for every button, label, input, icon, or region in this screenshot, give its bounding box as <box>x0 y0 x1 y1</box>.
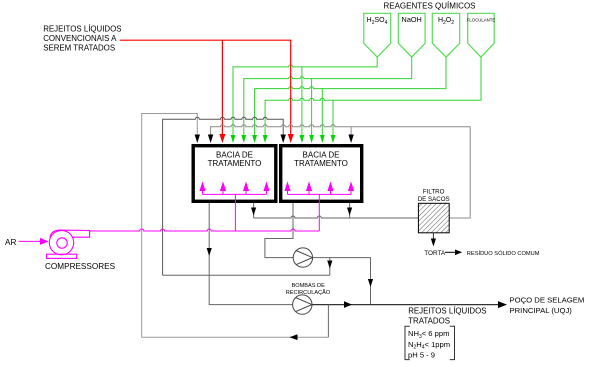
hopper H2SO4 <box>364 13 391 57</box>
wire: pump 1 suction from basin 2 <box>265 203 293 258</box>
svg-text:TORTA: TORTA <box>424 250 446 257</box>
wire: tee down to return line <box>327 305 329 338</box>
svg-text:FLOCULANTE: FLOCULANTE <box>467 18 496 23</box>
wire: filter solids drop <box>432 233 434 240</box>
svg-text:FILTRO: FILTRO <box>423 189 445 196</box>
svg-text:AR: AR <box>5 238 16 247</box>
svg-text:REAGENTES QUÍMICOS: REAGENTES QUÍMICOS <box>383 1 475 10</box>
hopper H2O2 <box>432 13 459 57</box>
red arrow into basin 1 <box>219 134 225 143</box>
svg-text:POÇO DE SELAGEM: POÇO DE SELAGEM <box>510 296 585 305</box>
arrow: basin 1 drain flow down <box>207 248 212 256</box>
svg-text:RECIRCULAÇÃO: RECIRCULAÇÃO <box>286 289 331 296</box>
wire: header C filter return <box>211 125 471 218</box>
svg-text:pH 5 - 9: pH 5 - 9 <box>408 351 435 360</box>
wire: pump 1 branch to header <box>329 258 331 276</box>
arrow: pump1 discharge down <box>368 279 373 287</box>
wire: header A + recirculation return (outer loop) <box>142 114 329 338</box>
wire: treated water line <box>312 304 502 306</box>
green arrows into basin 1 <box>231 135 268 143</box>
svg-text:RESÍDUO SÓLIDO COMUM: RESÍDUO SÓLIDO COMUM <box>467 250 540 257</box>
svg-text:TRATADOS: TRATADOS <box>408 316 450 325</box>
black arrow header B into basin 2 <box>281 135 286 144</box>
wire: green branch NaOH to basin 2 <box>311 79 313 135</box>
svg-text:CONVENCIONAIS A: CONVENCIONAIS A <box>43 34 117 43</box>
pump P1 <box>293 248 312 267</box>
arrow: branch flow down <box>327 261 332 269</box>
wire: basin 2 bottom outlet stub <box>349 203 351 218</box>
black arrow header C branch into basin 2 <box>348 135 353 144</box>
wire: basin 1 bottom outlet stub <box>253 203 255 218</box>
svg-text:SEREM TRATADOS: SEREM TRATADOS <box>43 44 115 53</box>
black arrow header C into basin 1 <box>208 135 213 144</box>
red arrow into basin 2 <box>288 134 294 143</box>
arrow: AR into compressor <box>19 238 49 245</box>
wire: header B (inner loop) <box>163 117 284 275</box>
wire: magenta feed to basin 2 <box>318 194 320 231</box>
basin 1 BACIA DE TRATAMENTO <box>193 146 276 202</box>
svg-text:NaOH: NaOH <box>402 15 422 24</box>
wire: basin 1 drain to pump 2 <box>209 203 292 305</box>
green arrows into basin 2 <box>300 135 336 143</box>
svg-text:REJEITOS LÍQUIDOS: REJEITOS LÍQUIDOS <box>408 307 486 316</box>
magenta manifold basin 2 <box>285 183 353 194</box>
svg-text:TRATAMENTO: TRATAMENTO <box>294 159 348 168</box>
label: REJEITOS LIQUIDOS CONVENCIONAIS text <box>43 24 121 52</box>
pump P2 <box>293 295 312 314</box>
wire: green feed line from H2SO4 <box>233 57 377 135</box>
svg-text:REJEITOS LÍQUIDOS: REJEITOS LÍQUIDOS <box>43 24 121 33</box>
wire: green branch FLOCULANTE to basin 2 <box>332 100 334 135</box>
wire: green branch H2SO4 to basin 2 <box>301 67 303 135</box>
wire: header C branch into basin 2 <box>350 127 352 136</box>
svg-text:COMPRESSORES: COMPRESSORES <box>45 262 116 271</box>
arrow: treated flow mid <box>344 301 352 308</box>
wire: green branch H2O2 to basin 2 <box>321 89 323 135</box>
hopper NaOH <box>398 13 425 57</box>
magenta manifold basin 1 <box>200 183 269 194</box>
wire: magenta air main line <box>90 229 320 231</box>
filter box hatched <box>418 203 449 233</box>
arrow: treated line end <box>498 301 507 308</box>
wire: magenta feed to basin 1 <box>234 194 236 231</box>
wire: red feed line <box>120 40 291 135</box>
hopper FLOCULANTE <box>467 13 496 57</box>
spec bracket block <box>405 326 455 359</box>
basin 2 BACIA DE TRATAMENTO <box>281 146 362 202</box>
wire: pump 1 discharge <box>313 258 371 305</box>
wire: green feed line from H2O2 <box>255 57 446 135</box>
wire: green feed line from NaOH <box>244 57 412 135</box>
black arrow header A into basin 1 <box>195 135 200 144</box>
arrow: torta to residuo <box>445 250 462 256</box>
svg-text:DE SACOS: DE SACOS <box>418 196 450 203</box>
wire: basin drain line to filter <box>254 216 419 218</box>
svg-text:BOMBAS DE: BOMBAS DE <box>292 283 326 289</box>
compressor symbol <box>47 230 90 258</box>
svg-text:PRINCIPAL (UQJ): PRINCIPAL (UQJ) <box>510 306 573 315</box>
wire: recirculation header <box>163 274 330 276</box>
wire: red branch to basin 1 <box>221 40 223 135</box>
arrow: return flow left <box>289 334 297 340</box>
svg-text:TRATAMENTO: TRATAMENTO <box>208 159 262 168</box>
wire: green feed line from FLOCULANTE <box>265 57 481 135</box>
